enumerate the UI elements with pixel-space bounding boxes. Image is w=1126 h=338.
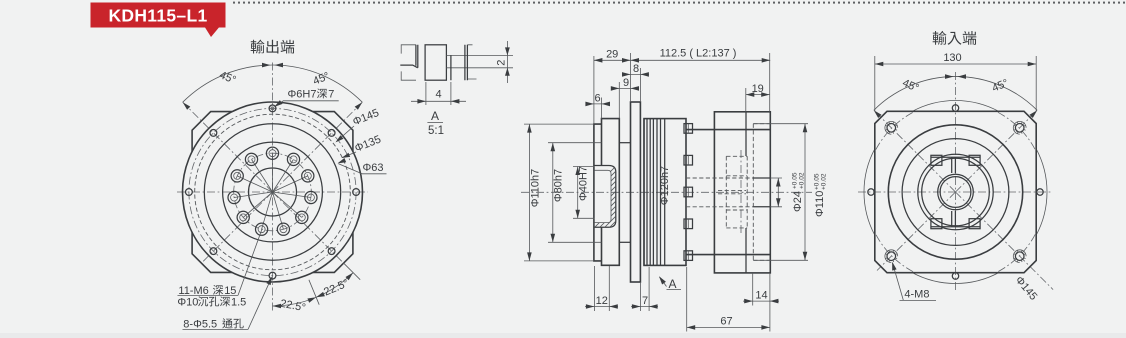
bolt centerline (dash-dot) xyxy=(740,150,742,234)
M6 tapped hole 8 xyxy=(296,211,308,223)
phi5.5 through hole at 225 deg xyxy=(210,248,217,255)
22.5deg boundary line at -45deg xyxy=(343,263,360,280)
M6 tapped hole 4 xyxy=(228,191,240,203)
horizontal centerline (left view) xyxy=(177,191,368,193)
phi5.5 through hole at 315 deg xyxy=(328,248,335,255)
dimension 4 xyxy=(425,82,427,105)
diagonal centerline 135deg xyxy=(183,102,273,192)
M6 tapped hole 2 xyxy=(245,153,257,165)
coupling outer double circle xyxy=(918,154,993,229)
radial leader line to M6 hole 9 xyxy=(273,192,311,198)
detail A output plate lines (2 thick) xyxy=(446,55,513,67)
section label A leader xyxy=(660,277,667,287)
diagonal centerline 225deg xyxy=(203,192,273,262)
arc end arrow right xyxy=(355,102,363,110)
keyway slot bottom xyxy=(952,211,956,227)
motor mounting flange xyxy=(714,112,770,273)
red model label KDH115-L1 xyxy=(91,3,226,38)
svg-text:Φ110h7: Φ110h7 xyxy=(530,169,542,208)
svg-text:5:1: 5:1 xyxy=(428,125,444,137)
extension lines bottom xyxy=(594,266,770,332)
svg-text:Φ110: Φ110 xyxy=(814,191,826,217)
svg-text:67: 67 xyxy=(720,316,732,328)
radial leader line to M6 hole 5 xyxy=(243,192,272,217)
M6 tapped hole 5 xyxy=(237,211,249,223)
leader phi135 xyxy=(343,152,357,158)
radial leader line to M6 hole 6 xyxy=(262,192,273,229)
svg-text:A: A xyxy=(669,277,677,291)
flange spigot circle r67 xyxy=(888,125,1022,259)
diagonal centerline 45deg (right) xyxy=(956,110,1038,192)
output flange disc body xyxy=(602,119,620,266)
phi80h7 spigot lines xyxy=(619,142,630,144)
svg-text:29: 29 xyxy=(606,49,618,61)
phi5.5 through hole at 405 deg xyxy=(328,130,335,137)
svg-text:8: 8 xyxy=(633,63,639,75)
svg-text:130: 130 xyxy=(943,52,961,64)
input bore phi24 lines xyxy=(686,178,753,207)
svg-text:Φ10: Φ10 xyxy=(177,297,198,309)
svg-text:112.5 ( L2:137 ): 112.5 ( L2:137 ) xyxy=(660,48,737,60)
svg-text:Φ80h7: Φ80h7 xyxy=(553,169,565,202)
vertical centerline (right view) xyxy=(955,72,957,290)
bottom strip xyxy=(0,333,1126,338)
dimension 67 xyxy=(687,326,770,328)
input-end title 輸入端 xyxy=(933,31,947,45)
leader phi6H7 xyxy=(275,101,338,106)
phi5.5 hole (right view) xyxy=(952,105,958,111)
phi5.5 through hole at 135 deg xyxy=(210,130,217,137)
leader 4-M8 xyxy=(893,263,904,300)
dimension phi110h7 xyxy=(528,124,530,261)
diagonal centerline 315deg (right) with phi145 leader xyxy=(956,192,1054,290)
dimension 130 extension lines xyxy=(875,56,1036,111)
housing body circle bulges (right view) xyxy=(1036,148,1047,235)
dimension 19 xyxy=(746,94,770,96)
svg-text:12: 12 xyxy=(596,295,608,307)
svg-text:Φ120h7: Φ120h7 xyxy=(659,166,671,205)
vertical centerline (left view) xyxy=(272,63,274,314)
svg-text:19: 19 xyxy=(752,83,764,95)
horizontal centerline (right view) xyxy=(858,191,1053,193)
M8 bolt circle phi145 (dash-dot arcs, right view) xyxy=(998,234,1035,271)
M8 tapped hole (1,-1) xyxy=(1013,121,1026,134)
leader phi145 xyxy=(337,126,355,142)
M6 tapped hole 10 xyxy=(302,170,314,182)
bolt circle phi145 (dash-dot) xyxy=(189,108,356,275)
radial leader line to M6 hole 3 xyxy=(237,176,272,192)
svg-text:Φ40H7: Φ40H7 xyxy=(577,166,589,201)
45deg dimension arc (right view) xyxy=(874,76,1037,110)
clamp plates cluster xyxy=(643,119,645,266)
dimension 130 xyxy=(875,63,1036,65)
hidden key (dashed) xyxy=(718,191,746,194)
M6 tapped hole 9 xyxy=(305,191,317,203)
dimension 29 xyxy=(594,59,631,61)
dimension phi40H7 xyxy=(577,167,579,219)
M6 tapped hole 11 xyxy=(287,153,299,165)
detail A break boundary marks xyxy=(401,45,476,80)
svg-text:+0.05: +0.05 xyxy=(792,172,799,189)
collar corner tabs xyxy=(931,155,942,165)
M6 tapped hole 6 xyxy=(256,223,268,235)
dimension 2 xyxy=(506,41,508,83)
radial leader line to M6 hole 4 xyxy=(234,192,272,198)
svg-text:+0.05: +0.05 xyxy=(814,173,821,190)
svg-text:Φ6H7: Φ6H7 xyxy=(288,89,317,101)
radial leader line to M6 hole 2 xyxy=(252,159,273,192)
M6 tapped hole 1 xyxy=(266,147,278,159)
extension lines phi dims left xyxy=(524,124,602,261)
adapter outer lines xyxy=(686,129,770,131)
front plate corner ear top-left xyxy=(192,112,232,152)
detail A right plates xyxy=(451,45,468,80)
leader 8-phi5.5 xyxy=(248,278,272,330)
keyway slot top xyxy=(952,157,956,173)
svg-text:1.5: 1.5 xyxy=(231,297,246,309)
horizontal centerline (section view) xyxy=(521,191,812,193)
dimension 12 xyxy=(585,306,618,308)
svg-text:7: 7 xyxy=(328,89,334,101)
svg-text:Φ63: Φ63 xyxy=(363,162,384,174)
diagonal centerline 225deg (right) xyxy=(877,192,956,271)
arc end arrow left xyxy=(183,102,191,110)
dimension phi110+ xyxy=(804,124,806,261)
housing front square plate xyxy=(631,102,641,282)
front plate corner ear bottom-left xyxy=(192,232,232,272)
22.5deg dimension arc xyxy=(273,273,354,306)
svg-text:4-M8: 4-M8 xyxy=(904,289,929,301)
phi135 circle (dashed) xyxy=(195,114,351,270)
hidden pilot bore phi110 (dashed) xyxy=(753,124,770,261)
extension lines top xyxy=(594,53,770,124)
radial leader line to M6 hole 11 xyxy=(273,159,294,192)
motor flange square 130 xyxy=(875,111,1036,272)
hidden bolt holes (dashed) xyxy=(726,156,747,228)
M8 tapped hole (-1,1) xyxy=(885,250,898,263)
coupling collar bottom chord xyxy=(931,226,980,228)
detail A left plate edge xyxy=(400,45,418,68)
leader 11-M6 xyxy=(238,229,262,296)
housing body circle xyxy=(183,102,363,282)
dimension 9 xyxy=(611,87,639,89)
output-end title 輸出端 xyxy=(251,40,265,54)
radial leader line to M6 hole 10 xyxy=(273,176,308,192)
leader phi63 xyxy=(339,164,363,174)
M6 tapped hole 7 xyxy=(277,223,289,235)
coupling collar top chord xyxy=(931,156,980,158)
phi5.5 through hole at 270 deg xyxy=(269,272,276,279)
phi5.5 through hole at 180 deg xyxy=(186,189,193,196)
svg-text:Φ24: Φ24 xyxy=(792,191,804,212)
ring gear housing body xyxy=(644,119,686,266)
M8 tapped hole (-1,-1) xyxy=(885,121,898,134)
flange step edge xyxy=(745,112,747,273)
arrows flanking top centerline xyxy=(262,63,271,68)
dimension 14 xyxy=(743,300,779,302)
dimension 8 xyxy=(622,73,649,75)
phi5.5 hole (right view) xyxy=(868,189,874,195)
svg-text:KDH115–L1: KDH115–L1 xyxy=(108,6,207,26)
input bore double circle xyxy=(938,174,974,210)
socket head screws xyxy=(684,124,693,134)
svg-text:2: 2 xyxy=(495,60,507,66)
phi5.5 through hole at 360 deg xyxy=(353,189,360,196)
svg-text:9: 9 xyxy=(623,77,629,89)
svg-text:+0.02: +0.02 xyxy=(821,173,828,190)
M6 bolt circle (dash-dot) xyxy=(234,153,312,231)
diagonal centerline 45deg xyxy=(273,102,363,192)
inner circle r53 xyxy=(902,139,1009,246)
phi5.5 through hole at 90 deg xyxy=(269,105,276,112)
dimension 6 xyxy=(586,103,610,105)
svg-text:6: 6 xyxy=(594,93,600,105)
radial leader line to M6 hole 1 xyxy=(272,153,274,192)
extension lines phi24/phi110 right xyxy=(753,124,808,261)
radial leader line to M6 hole 7 xyxy=(273,192,284,229)
dimension phi80h7 xyxy=(552,143,554,243)
svg-text:4: 4 xyxy=(435,89,441,101)
output flange pilot phi110h7 xyxy=(594,124,602,261)
svg-text:8-Φ5.5: 8-Φ5.5 xyxy=(183,319,217,331)
boss circle r50 xyxy=(223,142,323,242)
output disc cup section (hatched wall) xyxy=(594,166,616,228)
svg-text:14: 14 xyxy=(755,290,767,302)
svg-text:+0.02: +0.02 xyxy=(799,172,806,189)
center bore circle xyxy=(249,168,297,216)
M8 tapped hole (1,1) xyxy=(1013,250,1026,263)
22.5 arc arrows xyxy=(273,304,282,309)
top dotted border xyxy=(233,2,1125,4)
diagonal centerline 315deg xyxy=(273,192,343,262)
label phi63 underline xyxy=(362,173,387,175)
radial leader line to M6 hole 8 xyxy=(273,192,302,217)
phi5.5 hole (right view) xyxy=(952,273,958,279)
dimension 112.5 (L2:137) xyxy=(631,59,771,61)
front plate corner ear bottom-right xyxy=(313,232,353,272)
detail A middle plate xyxy=(425,45,446,80)
phi5.5 hole (right view) xyxy=(1037,189,1043,195)
pilot circle r68 xyxy=(204,124,340,260)
M6 tapped hole 3 xyxy=(231,170,243,182)
dimension phi24 xyxy=(777,178,779,207)
front plate corner ear top-right xyxy=(313,112,353,152)
svg-text:7: 7 xyxy=(642,295,648,307)
housing internal edge xyxy=(664,119,666,266)
22.5deg boundary line at -67.5deg xyxy=(309,280,319,305)
dimension 7 xyxy=(631,306,658,308)
diagonal centerline 135deg (right) xyxy=(874,110,956,192)
45deg dimension arc (left view) xyxy=(183,65,363,102)
phi6H7 dowel hole center mark xyxy=(271,107,274,110)
svg-text:A: A xyxy=(431,109,439,123)
